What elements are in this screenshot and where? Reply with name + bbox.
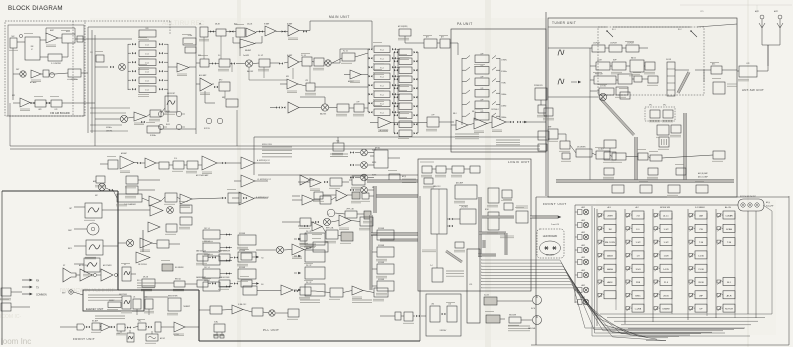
svg-text:COUPLER: COUPLER [593, 43, 600, 45]
svg-text:F-1 LIMITER: F-1 LIMITER [51, 63, 61, 65]
svg-text:2.3-5: 2.3-5 [145, 81, 149, 83]
svg-text:PD / CP: PD / CP [306, 265, 311, 267]
svg-text:M-CH: M-CH [531, 308, 535, 310]
svg-text:B.455: B.455 [166, 124, 170, 126]
svg-text:OSC 1-5: OSC 1-5 [204, 280, 210, 282]
svg-text:ELEKEY UNIT: ELEKEY UNIT [86, 307, 104, 311]
svg-text:AM-B: AM-B [607, 255, 613, 258]
svg-text:S-M DR: S-M DR [666, 59, 671, 61]
svg-text:F-1 MEMO: F-1 MEMO [695, 207, 705, 209]
svg-text:14MHz: 14MHz [501, 94, 507, 96]
svg-text:28F: 28F [699, 295, 703, 297]
svg-text:NB: NB [199, 24, 201, 26]
svg-text:MEMO KEYER: MEMO KEYER [168, 296, 177, 298]
svg-text:28MHz: 28MHz [501, 117, 507, 119]
svg-text:TUNER UNIT: TUNER UNIT [552, 21, 576, 25]
svg-text:AM: AM [699, 215, 702, 218]
svg-text:B/NC: B/NC [635, 295, 641, 297]
svg-text:9.5-1: 9.5-1 [380, 86, 384, 88]
svg-text:CPU REG: CPU REG [461, 207, 469, 209]
svg-text:DB-3B: DB-3B [215, 24, 220, 26]
svg-text:2.3-5: 2.3-5 [145, 72, 149, 74]
svg-text:AM-F: AM-F [607, 281, 613, 284]
svg-text:NOTCH: NOTCH [204, 128, 211, 130]
svg-text:DIVIDER: DIVIDER [378, 228, 385, 230]
svg-text:2M/H: 2M/H [607, 216, 613, 218]
svg-text:28.36: 28.36 [698, 282, 704, 284]
svg-text:LO: MUTE/SQL 1/2: LO: MUTE/SQL 1/2 [257, 179, 271, 181]
svg-text:PD / CP: PD / CP [306, 282, 311, 284]
svg-text:LPF: LPF [54, 109, 57, 111]
svg-text:PA UNIT: PA UNIT [457, 22, 473, 26]
svg-text:MB-5: MB-5 [472, 111, 476, 113]
svg-text:MUTE: MUTE [372, 175, 376, 177]
svg-text:21.36: 21.36 [698, 269, 704, 271]
svg-text:ANT-SW UNIT: ANT-SW UNIT [742, 88, 764, 92]
svg-text:USB/W: USB/W [662, 309, 670, 311]
svg-text:F-1 1/2: F-1 1/2 [343, 51, 348, 53]
svg-text:AT-R: AT-R [727, 294, 732, 297]
svg-text:FM CONV: FM CONV [605, 242, 616, 244]
svg-text:B.B DRIVER: B.B DRIVER [175, 267, 184, 269]
svg-text:2.3-5: 2.3-5 [145, 90, 149, 92]
svg-text:KEY: KEY [68, 248, 73, 250]
svg-text:THUMBWT: THUMBWT [183, 306, 190, 308]
svg-text:MODE SW: MODE SW [660, 207, 670, 209]
svg-text:9.5-1: 9.5-1 [380, 77, 384, 79]
svg-text:FRONT UNIT: FRONT UNIT [543, 202, 567, 206]
svg-text:LPF: LPF [481, 99, 484, 101]
svg-text:2nd MIX: 2nd MIX [243, 55, 250, 57]
svg-text:2.3-5: 2.3-5 [145, 63, 149, 65]
svg-text:LPF F-1.3B: LPF F-1.3B [346, 209, 354, 211]
svg-text:1.6/8: 1.6/8 [664, 256, 670, 258]
svg-text:F-1 CHANGER: F-1 CHANGER [124, 203, 136, 206]
svg-text:DET: DET [16, 69, 19, 71]
svg-text:UP: UP [124, 264, 126, 266]
svg-text:LED DRIVER: LED DRIVER [577, 147, 585, 149]
svg-text:S-1/2/3: S-1/2/3 [484, 295, 489, 297]
svg-text:DIVIDER: DIVIDER [378, 245, 385, 247]
svg-text:IWASICWIN YUHI IRF: IWASICWIN YUHI IRF [60, 288, 116, 294]
svg-text:COUPLER: COUPLER [627, 43, 634, 45]
svg-text:COMMON: COMMON [36, 295, 47, 297]
svg-text:1-1/2: 1-1/2 [664, 229, 670, 231]
svg-text:DIVIDER: DIVIDER [239, 233, 246, 235]
svg-text:VOL: VOL [174, 158, 177, 160]
svg-text:LPF: LPF [432, 115, 435, 117]
svg-text:1.9MHz: 1.9MHz [501, 60, 507, 62]
svg-text:C31: C31 [90, 52, 93, 54]
svg-text:2SC2904-2: 2SC2904-2 [491, 109, 499, 111]
svg-text:BPF: BPF [198, 55, 201, 57]
svg-text:ICOM IC-: ICOM IC- [0, 314, 21, 320]
svg-text:DR-1/B: DR-1/B [143, 277, 148, 279]
svg-text:9.5-1: 9.5-1 [380, 104, 384, 106]
svg-text:LED BOARD: LED BOARD [543, 235, 558, 238]
svg-text:HPF: HPF [38, 109, 41, 111]
svg-text:C-4: C-4 [430, 265, 433, 267]
svg-text:1-B: 1-B [133, 297, 135, 299]
svg-text:3.5MHz: 3.5MHz [501, 71, 507, 73]
svg-text:FM FRONT: FM FRONT [167, 93, 175, 95]
svg-text:A-1.1: A-1.1 [663, 215, 669, 218]
svg-text:TX: TX [36, 288, 39, 290]
svg-text:RL-2: RL-2 [678, 29, 682, 31]
svg-text:PD / CP: PD / CP [306, 231, 311, 233]
svg-text:MB-1: MB-1 [453, 113, 457, 115]
svg-text:F-1 9.5: F-1 9.5 [301, 55, 306, 57]
svg-text:28.05: 28.05 [663, 295, 669, 297]
svg-text:SP-1: SP-1 [649, 105, 652, 107]
svg-text:RX: RX [36, 281, 40, 283]
svg-text:SQL(-)/RF: SQL(-)/RF [766, 206, 773, 208]
svg-text:9.5-1: 9.5-1 [380, 50, 384, 52]
svg-text:SP-2: SP-2 [663, 105, 666, 107]
svg-text:455kHz: 455kHz [106, 127, 112, 129]
svg-text:AM-A: AM-A [607, 268, 613, 271]
svg-text:3.5/4: 3.5/4 [636, 269, 642, 271]
svg-text:LPF: LPF [305, 80, 308, 82]
svg-text:FM AM BOARD: FM AM BOARD [50, 111, 70, 115]
svg-text:F-1 1/2: F-1 1/2 [258, 55, 263, 57]
svg-text:OSC 1-5: OSC 1-5 [204, 267, 210, 269]
svg-text:DIVIDER: DIVIDER [239, 250, 246, 252]
svg-text:14.35: 14.35 [663, 269, 669, 271]
svg-text:2.3-5: 2.3-5 [145, 45, 149, 47]
svg-text:COUPLER: COUPLER [610, 43, 617, 45]
svg-text:DIVIDER: DIVIDER [239, 267, 246, 269]
svg-text:DR-1: DR-1 [138, 321, 141, 323]
svg-text:7 MHz: 7 MHz [501, 83, 506, 85]
svg-text:1-1/2: 1-1/2 [636, 242, 642, 244]
svg-text:UP: UP [699, 309, 703, 311]
svg-text:POWER SW: POWER SW [534, 85, 543, 87]
svg-text:LPF: LPF [357, 102, 360, 104]
svg-text:LPF: LPF [481, 111, 484, 113]
svg-text:1M: 1M [608, 229, 611, 231]
svg-text:14.36: 14.36 [698, 256, 704, 258]
svg-text:KEY SPEED: KEY SPEED [119, 294, 127, 296]
svg-text:LPF: LPF [481, 53, 484, 55]
svg-text:RL-1: RL-1 [612, 29, 616, 31]
svg-text:ENCODER: ENCODER [509, 315, 516, 317]
svg-text:loom Inc: loom Inc [1, 337, 31, 346]
svg-text:PD / CP: PD / CP [306, 248, 311, 250]
svg-text:OSC 1-5: OSC 1-5 [204, 228, 210, 230]
svg-text:LOGIC UNIT: LOGIC UNIT [508, 160, 530, 164]
svg-text:MAIN UNIT: MAIN UNIT [329, 15, 350, 19]
svg-text:9.5-1: 9.5-1 [380, 59, 384, 61]
svg-text:9.5-1: 9.5-1 [380, 113, 384, 115]
svg-text:BLOCK DIAGRAM: BLOCK DIAGRAM [8, 5, 63, 12]
svg-text:AL-CH: AL-CH [725, 206, 732, 209]
svg-text:T-B: T-B [261, 258, 263, 260]
svg-text:4.19 OSC: 4.19 OSC [600, 86, 606, 88]
svg-text:CER FIL: CER FIL [106, 131, 113, 133]
svg-text:NOTCH WIDTH PBT: NOTCH WIDTH PBT [740, 196, 756, 198]
svg-text:DIVIDER: DIVIDER [378, 279, 385, 281]
svg-text:LPF: LPF [481, 88, 484, 90]
svg-text:L-USB: L-USB [635, 309, 642, 311]
svg-text:LPF: LPF [481, 76, 484, 78]
svg-text:MIC: MIC [68, 230, 72, 232]
svg-text:RX LO: RX LO [137, 280, 143, 282]
svg-text:455-1B: 455-1B [247, 24, 252, 26]
svg-text:21MHz: 21MHz [501, 106, 507, 108]
svg-text:8.9MHz: 8.9MHz [150, 135, 156, 137]
svg-text:SCAN: SCAN [726, 228, 732, 231]
svg-text:F-B: F-B [261, 284, 263, 286]
svg-text:MODE CODE: MODE CODE [262, 144, 272, 146]
svg-text:DIVIDER: DIVIDER [378, 262, 385, 264]
svg-text:FRONT UNIT: FRONT UNIT [73, 337, 95, 341]
svg-text:SP: SP [63, 265, 65, 267]
svg-text:AELTIRU REC: AELTIRU REC [162, 20, 205, 27]
svg-text:9.5-1: 9.5-1 [380, 95, 384, 97]
svg-text:PLL UNIT: PLL UNIT [263, 328, 279, 332]
svg-text:1-1/2: 1-1/2 [664, 242, 670, 244]
svg-text:VR 2SC2904: VR 2SC2904 [138, 264, 147, 266]
svg-text:NOTCH: NOTCH [725, 309, 733, 311]
svg-text:BUFF: BUFF [613, 60, 617, 62]
svg-text:2.3-5: 2.3-5 [145, 54, 149, 56]
svg-text:COUNT: COUNT [597, 60, 602, 62]
svg-text:ELEKEY: ELEKEY [109, 300, 114, 302]
svg-text:CLEAR: CLEAR [725, 215, 733, 218]
svg-text:B.455: B.455 [166, 111, 170, 113]
svg-text:F-1: F-1 [218, 55, 221, 57]
svg-text:9.5-1: 9.5-1 [380, 68, 384, 70]
